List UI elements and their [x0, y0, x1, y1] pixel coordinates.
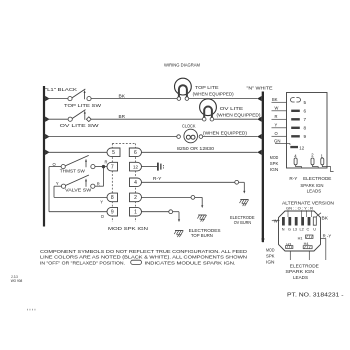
svg-text:O: O — [275, 131, 278, 136]
svg-text:SPARK IGN: SPARK IGN — [285, 269, 314, 274]
svg-text:4: 4 — [134, 180, 137, 186]
svg-text:SPARK IGN: SPARK IGN — [300, 183, 323, 188]
svg-text:7: 7 — [304, 117, 307, 122]
svg-text:1: 1 — [134, 210, 137, 216]
svg-text:OV LITE SW: OV LITE SW — [60, 123, 100, 128]
svg-text:2: 2 — [134, 195, 137, 201]
svg-text:8: 8 — [111, 195, 114, 201]
svg-text:9: 9 — [304, 134, 307, 139]
svg-text:O: O — [101, 214, 104, 219]
svg-text:LEADS: LEADS — [307, 189, 322, 194]
svg-text:"L1" BLACK: "L1" BLACK — [45, 87, 77, 92]
svg-text:12: 12 — [299, 146, 304, 151]
svg-text:5: 5 — [304, 100, 307, 105]
svg-text:COMPONENT SYMBOLS DO NOT REFLE: COMPONENT SYMBOLS DO NOT REFLECT TRUE CO… — [40, 249, 248, 254]
svg-text:TOP LITE SW: TOP LITE SW — [64, 103, 102, 108]
svg-text:7: 7 — [111, 164, 114, 170]
svg-text:SPK: SPK — [270, 161, 279, 166]
svg-text:8: 8 — [304, 126, 307, 131]
svg-text:BR: BR — [119, 114, 126, 119]
svg-text:G: G — [288, 227, 291, 231]
svg-text:H1: H1 — [298, 236, 303, 240]
svg-text:6: 6 — [304, 109, 307, 114]
svg-text:LINE COLORS ARE AS NOTED (BLAC: LINE COLORS ARE AS NOTED (BLACK & WHITE)… — [40, 255, 247, 260]
svg-text:R-Y: R-Y — [153, 176, 162, 181]
svg-text:INDICATES MODULE SPARK IGN.: INDICATES MODULE SPARK IGN. — [145, 260, 236, 265]
svg-text:R: R — [105, 160, 108, 165]
svg-text:GN : : O : Y : R: GN : : O : Y : R — [286, 207, 313, 211]
svg-text:5: 5 — [112, 150, 115, 156]
svg-text:L3: L3 — [293, 227, 297, 231]
svg-text:N: N — [282, 227, 285, 231]
svg-text:(WHEN EQUIPPED): (WHEN EQUIPPED) — [203, 130, 248, 135]
svg-text:Y: Y — [275, 123, 278, 128]
svg-text:IGN: IGN — [270, 167, 279, 172]
svg-text:R -Y: R -Y — [323, 234, 332, 239]
svg-text:THMST SW: THMST SW — [60, 169, 86, 174]
svg-text:BK: BK — [119, 93, 126, 98]
svg-text:MOD: MOD — [270, 155, 279, 160]
svg-text:R: R — [275, 114, 278, 119]
svg-text:"N" WHITE: "N" WHITE — [247, 85, 273, 90]
svg-text:LEADS: LEADS — [293, 275, 308, 280]
svg-text:WIRING DIAGRAM: WIRING DIAGRAM — [164, 63, 201, 68]
svg-text:6: 6 — [134, 150, 137, 156]
svg-text:CLOCK: CLOCK — [182, 123, 196, 128]
svg-text:U: U — [313, 227, 316, 231]
svg-text:L2: L2 — [300, 227, 304, 231]
svg-text:WO 908: WO 908 — [11, 279, 23, 283]
svg-text:O: O — [53, 162, 56, 167]
svg-text:OV BURN: OV BURN — [234, 220, 252, 225]
svg-text:9: 9 — [111, 210, 114, 216]
svg-text:IGN: IGN — [266, 260, 275, 265]
svg-text:BK: BK — [272, 97, 278, 102]
svg-text:R-Y: R-Y — [289, 176, 297, 181]
svg-text:OV LITE: OV LITE — [220, 106, 244, 111]
svg-text:Y: Y — [100, 199, 103, 204]
svg-text:TOP BURN: TOP BURN — [191, 233, 213, 238]
svg-text:8250 OR 12830: 8250 OR 12830 — [177, 146, 215, 151]
svg-text:TOP LITE: TOP LITE — [195, 85, 219, 90]
svg-text:PT. NO. 3184231 -: PT. NO. 3184231 - — [287, 292, 344, 298]
svg-text:VALVE SW: VALVE SW — [65, 188, 92, 193]
svg-text:GN: GN — [274, 139, 281, 144]
svg-text:ELECTRODE: ELECTRODE — [290, 263, 319, 268]
svg-text:BK: BK — [322, 216, 329, 221]
svg-text:W: W — [275, 106, 279, 111]
svg-text:C: C — [307, 227, 310, 231]
svg-text:(WHEN EQUIPPED): (WHEN EQUIPPED) — [217, 112, 262, 117]
svg-text:MOD SPK IGN: MOD SPK IGN — [108, 226, 148, 231]
svg-text:ALTERNATE VERSION: ALTERNATE VERSION — [282, 201, 334, 206]
svg-text:ELECTRODE: ELECTRODE — [303, 176, 331, 181]
svg-text:12: 12 — [133, 164, 139, 169]
svg-text:SPK: SPK — [266, 254, 275, 259]
svg-text:MOD: MOD — [266, 248, 275, 253]
svg-text:Y: Y — [56, 181, 59, 186]
svg-text:(WHEN EQUIPPED): (WHEN EQUIPPED) — [193, 92, 235, 97]
svg-text:IN "OFF" OR "RELAXED" POSITION: IN "OFF" OR "RELAXED" POSITION. — [40, 260, 125, 265]
